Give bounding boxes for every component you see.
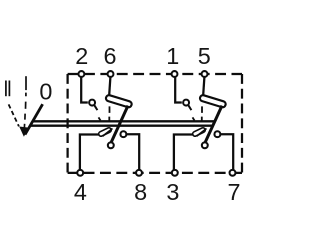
svg-text:5: 5 bbox=[198, 43, 211, 69]
svg-text:3: 3 bbox=[166, 179, 179, 205]
svg-text:0: 0 bbox=[39, 78, 52, 104]
svg-text:7: 7 bbox=[227, 179, 240, 205]
svg-text:4: 4 bbox=[74, 179, 87, 205]
svg-text:8: 8 bbox=[134, 179, 147, 205]
svg-text:1: 1 bbox=[166, 43, 179, 69]
svg-text:6: 6 bbox=[103, 43, 116, 69]
svg-text:2: 2 bbox=[75, 43, 88, 69]
